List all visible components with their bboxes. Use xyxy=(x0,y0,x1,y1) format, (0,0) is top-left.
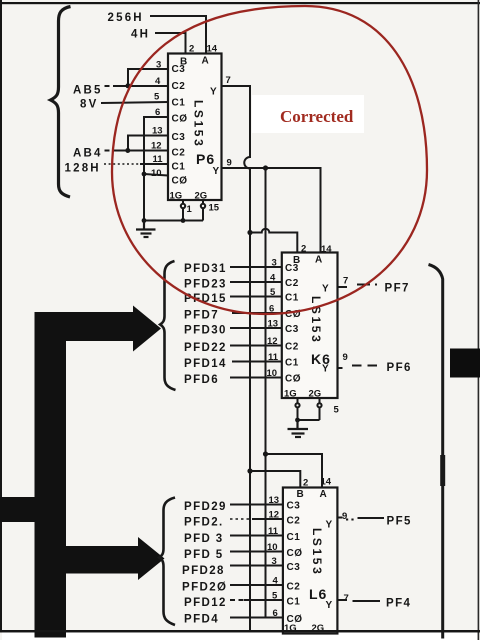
brace: K6 input group xyxy=(160,261,175,390)
svg-text:13: 13 xyxy=(268,319,279,330)
wire AB4 to P6 pin 12 (C2) dashed lead xyxy=(105,150,117,152)
svg-text:PFD7: PFD7 xyxy=(184,310,219,322)
svg-text:10: 10 xyxy=(267,542,278,553)
svg-text:11: 11 xyxy=(268,526,279,537)
wire Y2 bus down to L6 xyxy=(265,168,267,618)
ground symbol K6 xyxy=(288,420,309,437)
svg-text:10: 10 xyxy=(151,168,162,179)
svg-text:C2: C2 xyxy=(172,81,186,92)
wire L6 pin 9 Y to PF5 dash-dot xyxy=(337,518,384,520)
svg-text:LS153: LS153 xyxy=(309,296,323,344)
wire K6 2G to ground xyxy=(317,398,321,420)
junction pin10/ground rail xyxy=(142,172,147,177)
svg-text:A: A xyxy=(315,255,323,266)
svg-text:PFD 5: PFD 5 xyxy=(184,549,224,561)
wire PFD6 to K6 pin 10 xyxy=(230,377,282,379)
svg-text:C3: C3 xyxy=(285,263,299,274)
wire P6 2G to ground rail xyxy=(201,200,205,221)
P6 ground rail xyxy=(144,220,203,222)
wire P6 Y2 (pin9) to K6 pin 14 (A) xyxy=(222,168,321,253)
svg-text:PFD2.: PFD2. xyxy=(184,517,224,529)
svg-text:2: 2 xyxy=(189,44,194,55)
wire PFD28 to L6 pin 3 xyxy=(230,565,283,567)
wire K6 1G to ground xyxy=(295,398,299,420)
multiplexer P6 LS153 body xyxy=(168,54,222,201)
svg-text:3: 3 xyxy=(272,258,277,269)
wire PFD29 to L6 pin 13 xyxy=(230,504,283,506)
svg-text:C2: C2 xyxy=(172,148,186,159)
svg-text:Y: Y xyxy=(210,87,217,98)
K6 pin 7 number and Y1 output label xyxy=(322,276,348,295)
svg-text:5: 5 xyxy=(334,405,340,416)
wire Y1 bus to L6 pin 2 (B) xyxy=(250,471,300,488)
L6 pin 9 number and Y1 output label xyxy=(326,511,348,531)
svg-text:3: 3 xyxy=(156,60,161,71)
wire P6 pin 10 (C0) to ground rail xyxy=(144,174,168,176)
svg-text:2G: 2G xyxy=(309,389,322,400)
svg-text:2: 2 xyxy=(303,478,308,489)
svg-text:1: 1 xyxy=(187,204,193,215)
annotation highlight circle (red) xyxy=(112,6,427,314)
ground symbol P6 xyxy=(136,221,156,238)
svg-text:4: 4 xyxy=(155,76,161,87)
svg-text:15: 15 xyxy=(209,203,220,214)
svg-text:14: 14 xyxy=(321,477,332,488)
svg-text:5: 5 xyxy=(270,287,276,298)
wire PFD22 to K6 pin 12 xyxy=(230,345,282,347)
svg-text:1G: 1G xyxy=(170,191,183,202)
P6 pin 9 number and Y2 output label xyxy=(213,158,232,178)
svg-text:8V: 8V xyxy=(80,99,98,111)
svg-text:13: 13 xyxy=(152,126,163,137)
svg-text:7: 7 xyxy=(343,276,348,287)
svg-text:5: 5 xyxy=(154,92,160,103)
svg-text:C3: C3 xyxy=(285,324,299,335)
svg-text:C2: C2 xyxy=(285,342,299,353)
K6 input labels C3 C2 C1 C0 C3 C2 C1 C0 xyxy=(285,263,301,385)
wire AB5 to P6 pin 4 (C2) xyxy=(116,85,168,87)
P6 enable labels 1G 2G xyxy=(170,191,208,202)
svg-text:C3: C3 xyxy=(287,562,301,573)
svg-text:AB5: AB5 xyxy=(73,85,103,97)
wire PFD4 to L6 pin 6 xyxy=(230,617,283,619)
svg-text:4: 4 xyxy=(273,576,279,587)
junction on AB5 line xyxy=(126,83,131,88)
svg-text:PFD14: PFD14 xyxy=(184,358,227,370)
junction Y2 bus xyxy=(263,165,268,170)
brace: L6 input group xyxy=(159,498,175,626)
svg-text:A: A xyxy=(202,56,210,67)
wire K6 pin 9 Y to PF6 xyxy=(338,366,380,369)
P6 left pin numbers 3 4 5 6 13 12 11 10 xyxy=(151,60,163,180)
svg-text:P6: P6 xyxy=(196,151,215,167)
K6 select input labels B A xyxy=(293,255,323,267)
svg-text:Y: Y xyxy=(326,520,333,531)
svg-text:PFD28: PFD28 xyxy=(182,565,225,577)
wire PFD7 to K6 pin 6 xyxy=(232,312,282,314)
svg-text:14: 14 xyxy=(207,44,218,55)
svg-text:CØ: CØ xyxy=(285,374,301,385)
svg-text:PFD22: PFD22 xyxy=(184,342,227,354)
svg-text:5: 5 xyxy=(272,591,278,602)
junction Y1 bus to K6 B xyxy=(247,230,252,235)
svg-text:PF7: PF7 xyxy=(385,283,410,295)
wire 8V to P6 pin 5 (C1) xyxy=(101,102,168,103)
multiplexer L6 LS153 body xyxy=(283,488,338,634)
svg-text:A: A xyxy=(320,489,328,500)
svg-text:Y: Y xyxy=(326,600,333,611)
svg-text:C3: C3 xyxy=(287,501,301,512)
svg-text:C2: C2 xyxy=(287,516,301,527)
K6 ground rail xyxy=(298,419,320,421)
P6 input labels C3 C2 C1 C0 C3 C2 C1 C0 xyxy=(172,64,188,187)
svg-text:PFD 3: PFD 3 xyxy=(184,533,224,545)
wire PFD23 to K6 pin 4 xyxy=(230,281,282,283)
svg-text:PF6: PF6 xyxy=(387,362,412,374)
svg-text:C1: C1 xyxy=(172,98,186,109)
svg-text:PFD2Ø: PFD2Ø xyxy=(182,582,227,594)
svg-text:CØ: CØ xyxy=(287,548,303,559)
svg-text:6: 6 xyxy=(155,107,160,118)
svg-text:4: 4 xyxy=(270,273,276,284)
svg-text:11: 11 xyxy=(268,352,279,363)
wire PFD 3 to L6 pin 11 xyxy=(230,535,283,537)
junction K6 ground rail xyxy=(295,418,300,423)
multiplexer K6 LS153 body xyxy=(282,253,338,399)
svg-text:C3: C3 xyxy=(172,64,186,75)
P6 select input labels B A xyxy=(180,56,209,68)
arrow marker pointing to K6 input group xyxy=(35,306,162,638)
svg-text:11: 11 xyxy=(153,154,164,165)
junction on AB4 line xyxy=(125,148,130,153)
bus bar entering from left edge xyxy=(0,497,38,522)
wire PFD 5 to L6 pin 10 xyxy=(230,551,283,553)
L6 pin 7 number and Y2 output label xyxy=(326,593,349,611)
svg-text:C3: C3 xyxy=(172,132,186,143)
wire PFD2. to L6 pin 12 dotted xyxy=(230,518,283,520)
K6 left pin numbers 3 4 5 6 13 12 11 10 xyxy=(267,258,279,380)
svg-text:PF4: PF4 xyxy=(386,598,411,610)
wire Y1 bus to K6 pin 2 (B) with hop xyxy=(250,229,297,253)
svg-text:C1: C1 xyxy=(172,162,186,173)
svg-text:128H: 128H xyxy=(65,163,101,175)
svg-text:1G: 1G xyxy=(284,389,297,400)
K6 enable labels 1G 2G xyxy=(284,389,321,400)
connector tab at right edge xyxy=(450,349,480,378)
wire 128H to P6 pin 11 (C1) dotted lead xyxy=(104,163,140,165)
wire PFD31 to K6 pin 3 xyxy=(230,266,282,268)
brace: right output group xyxy=(429,265,443,639)
wire 4H to P6 pin 2 (B) xyxy=(155,33,186,54)
L6 enable labels 1G 2G xyxy=(284,623,324,634)
svg-text:9: 9 xyxy=(343,352,348,363)
wire P6 pin 6 (C0) to ground rail xyxy=(144,117,168,221)
svg-text:12: 12 xyxy=(267,336,278,347)
wire P6 1G to ground rail xyxy=(181,200,185,221)
wire P6 pin 13 (C3) branch xyxy=(128,136,168,151)
wire PFD30 to K6 pin 13 xyxy=(230,327,282,329)
svg-text:256H: 256H xyxy=(108,12,144,24)
wire K6 pin 7 Y to PF7 xyxy=(338,285,378,288)
svg-text:4H: 4H xyxy=(131,29,150,41)
svg-text:Corrected: Corrected xyxy=(280,107,354,126)
svg-text:PFD6: PFD6 xyxy=(184,374,219,386)
arrow marker pointing to L6 input group xyxy=(66,537,165,580)
wire Y2 bus to L6 pin 14 (A) xyxy=(266,454,323,488)
junction Y1 bus to L6 B xyxy=(247,468,252,473)
svg-text:12: 12 xyxy=(269,510,280,521)
svg-text:C1: C1 xyxy=(287,532,301,543)
K6 pin 9 number and Y2 output label xyxy=(322,352,348,375)
svg-text:6: 6 xyxy=(273,608,278,619)
P6 pin 7 number and Y1 output label xyxy=(210,75,231,98)
brace: P6 input group xyxy=(51,7,71,198)
L6 select input labels B A xyxy=(297,489,328,500)
wire PFD20 to L6 pin 4 xyxy=(230,584,283,586)
svg-text:2: 2 xyxy=(301,244,306,255)
svg-text:C2: C2 xyxy=(285,278,299,289)
svg-text:C1: C1 xyxy=(285,293,299,304)
svg-text:CØ: CØ xyxy=(172,176,188,187)
svg-text:Y: Y xyxy=(322,364,329,375)
svg-text:PFD12: PFD12 xyxy=(184,597,227,609)
wire 256H to P6 pin 14 (A) xyxy=(150,16,206,54)
svg-text:AB4: AB4 xyxy=(73,148,103,160)
svg-text:14: 14 xyxy=(321,244,332,255)
svg-text:B: B xyxy=(297,489,305,500)
svg-text:PFD30: PFD30 xyxy=(184,325,227,337)
wire branch to P6 pin 3 (C3) xyxy=(128,69,168,86)
svg-text:3: 3 xyxy=(272,556,277,567)
wire PFD14 to K6 pin 11 xyxy=(232,361,282,363)
svg-text:PFD31: PFD31 xyxy=(184,263,227,275)
svg-text:C1: C1 xyxy=(287,597,301,608)
wire PFD15 to K6 pin 5 xyxy=(230,296,282,298)
svg-text:CØ: CØ xyxy=(172,114,188,125)
svg-text:PFD23: PFD23 xyxy=(184,279,227,291)
svg-text:LS153: LS153 xyxy=(310,528,324,576)
svg-text:PFD4: PFD4 xyxy=(184,614,219,626)
wire P6 Y1 (pin7) select bus to K6/L6 B inputs xyxy=(222,86,251,630)
svg-text:7: 7 xyxy=(226,75,231,86)
wire 128H to P6 pin 11 (C1) xyxy=(140,163,168,165)
svg-text:PFD29: PFD29 xyxy=(184,501,227,513)
wire PFD12 to L6 pin 5 dashed lead xyxy=(230,599,283,601)
svg-text:9: 9 xyxy=(227,158,232,169)
L6 input labels C3 C2 C1 C0 C3 C2 C1 C0 xyxy=(287,501,303,626)
svg-text:C2: C2 xyxy=(287,582,301,593)
svg-text:LS153: LS153 xyxy=(192,100,206,148)
wire L6 pin 7 Y to PF4 xyxy=(337,600,380,601)
svg-text:2G: 2G xyxy=(195,191,208,202)
wire AB4 to P6 pin 12 (C2) xyxy=(116,150,168,152)
svg-text:7: 7 xyxy=(344,593,349,604)
svg-text:13: 13 xyxy=(269,495,280,506)
wire AB5 to P6 pin 4 (C2) dashed lead xyxy=(105,85,117,87)
svg-text:Y: Y xyxy=(213,166,220,177)
svg-text:Y: Y xyxy=(322,284,329,295)
svg-text:10: 10 xyxy=(267,368,278,379)
junction ground rail xyxy=(142,218,147,223)
svg-text:C1: C1 xyxy=(285,358,299,369)
svg-text:12: 12 xyxy=(151,141,162,152)
svg-text:PF5: PF5 xyxy=(387,516,412,528)
L6 left pin numbers 13 12 11 10 3 4 5 6 xyxy=(267,495,279,619)
junction Y2 bus to L6 A xyxy=(263,451,268,456)
